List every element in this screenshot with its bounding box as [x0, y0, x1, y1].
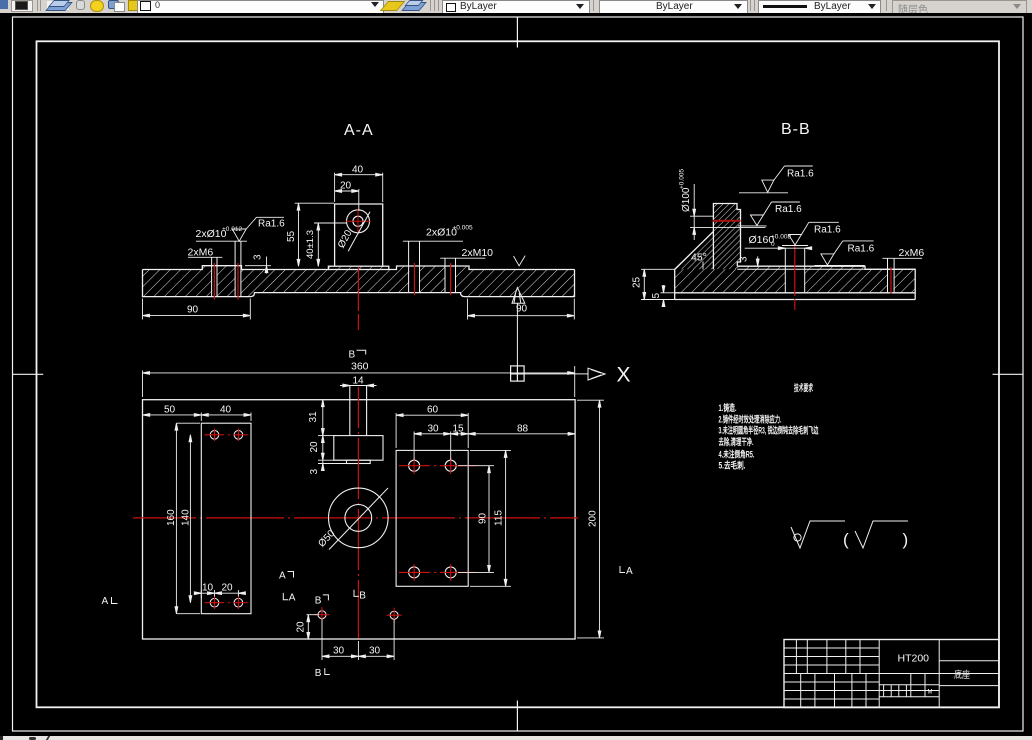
keyway slot lines — [350, 386, 367, 436]
sun icon yellow — [90, 0, 104, 12]
dim 20 bottom holes — [296, 615, 320, 640]
svg-text:3: 3 — [253, 254, 264, 260]
svg-text:Ra1.6: Ra1.6 — [258, 219, 285, 230]
svg-text:+0.005: +0.005 — [679, 169, 686, 189]
boss box plan — [334, 436, 383, 464]
B-B hole voids — [786, 264, 894, 294]
A-A dim 40 — [335, 165, 383, 203]
dim 20 bottom of slot — [208, 583, 246, 597]
A-A boss — [335, 204, 383, 266]
B-B hole red centerlines — [795, 246, 891, 310]
B-B dim Ø100 +0.005 — [679, 169, 766, 240]
note line 6 — [719, 460, 746, 471]
layer dropdown arrow — [371, 2, 379, 7]
svg-text:Ra1.6: Ra1.6 — [848, 244, 875, 255]
svg-text:Ra1.6: Ra1.6 — [787, 169, 814, 180]
bottom pin holes red crosses — [315, 607, 402, 623]
left slot holes bottom — [210, 598, 243, 607]
svg-text:160: 160 — [166, 509, 177, 526]
A-A plate hatched body — [143, 266, 575, 298]
plot style dropdown disabled — [892, 0, 1027, 14]
svg-text:Ra1.6: Ra1.6 — [775, 204, 802, 215]
svg-text:5.去毛刺.: 5.去毛刺. — [719, 460, 746, 471]
A-A hole wall lines right — [409, 241, 456, 292]
note line 2 — [719, 414, 782, 425]
title block right cells — [939, 661, 999, 686]
plan horizontal red centerline — [133, 517, 578, 519]
svg-text:20: 20 — [296, 621, 307, 633]
section mark A upper — [279, 571, 294, 582]
B-B dim 25 — [632, 269, 676, 299]
A-A roughness check mark right — [514, 256, 526, 266]
note line 1 — [719, 402, 737, 413]
make object layer icon yellow — [380, 1, 405, 11]
B-B title — [781, 121, 811, 138]
svg-text:X: X — [617, 364, 631, 387]
B-B body outline — [675, 204, 916, 300]
svg-text:115: 115 — [494, 510, 505, 526]
A-A plate outline — [143, 266, 575, 297]
svg-text:2xM6: 2xM6 — [899, 247, 925, 259]
note line 5 — [719, 449, 755, 460]
B-B dim 5 — [651, 285, 676, 307]
dim 60 — [396, 405, 468, 448]
section mark A lower — [283, 593, 296, 604]
dim 30 30 bottom — [322, 619, 394, 660]
svg-text:去除,清理干净.: 去除,清理干净. — [719, 436, 754, 447]
svg-text:2xM6: 2xM6 — [188, 247, 214, 259]
section label B top — [349, 350, 366, 361]
svg-text:30: 30 — [369, 646, 381, 657]
B-B 45 degree label — [691, 252, 707, 270]
command text clipped marks — [0, 736, 3, 740]
svg-text:): ) — [903, 530, 909, 549]
svg-text:A: A — [626, 566, 633, 577]
part name text — [954, 669, 970, 681]
UCS icon X letter — [617, 364, 631, 387]
svg-text:20: 20 — [309, 441, 320, 453]
B-B roughness Ra1.6 no3 — [782, 222, 841, 245]
svg-text:+0.005: +0.005 — [453, 225, 473, 232]
svg-text:31: 31 — [308, 411, 319, 423]
B-B label 2xM6 — [882, 247, 924, 259]
B-B dim 3 — [739, 256, 766, 266]
color dropdown — [442, 0, 590, 14]
svg-text:20: 20 — [222, 583, 234, 594]
UCS icon origin box — [511, 366, 524, 381]
notes title — [794, 382, 814, 393]
surface finish note symbol 2 parentheses — [843, 530, 908, 549]
A-A hole centerlines right red — [414, 263, 450, 295]
svg-text:B: B — [315, 668, 322, 679]
section mark B middle — [354, 590, 366, 602]
svg-text:A: A — [279, 571, 286, 582]
dim 160 — [166, 423, 200, 614]
small M mark — [928, 690, 933, 696]
svg-text:B-B: B-B — [781, 121, 811, 138]
A-A dim 3 step — [245, 254, 271, 274]
dim 115 — [470, 450, 511, 586]
svg-text:0: 0 — [771, 241, 775, 248]
svg-text:90: 90 — [187, 305, 199, 316]
command line strip — [0, 736, 1032, 740]
separator — [593, 0, 594, 11]
svg-text:HT200: HT200 — [898, 653, 930, 665]
svg-text:3: 3 — [309, 469, 320, 475]
icon black rectangle tool — [11, 0, 33, 12]
svg-text:45°: 45° — [691, 252, 707, 264]
layers stack icon — [47, 1, 69, 10]
svg-text:60: 60 — [427, 405, 439, 416]
padlock yellow icon — [128, 0, 139, 11]
svg-text:(: ( — [843, 530, 849, 549]
svg-text:B: B — [359, 591, 366, 602]
dim 14 slot — [340, 375, 377, 387]
dim 90 vertical right slot — [458, 466, 494, 573]
svg-text:88: 88 — [517, 423, 529, 434]
svg-text:A: A — [289, 593, 296, 604]
surface finish note symbol 1 — [791, 521, 845, 548]
dim 360 — [143, 361, 575, 398]
A-A hole centerlines left red — [214, 263, 238, 300]
svg-text:55: 55 — [286, 230, 297, 242]
layer dropdown box — [137, 0, 384, 14]
A-A label 2xM10 — [440, 247, 493, 259]
A-A boss hole circle — [347, 210, 370, 233]
lineweight dropdown — [758, 0, 881, 14]
dims 31 20 3 chain — [308, 400, 347, 475]
svg-text:4.未注倒角R5.: 4.未注倒角R5. — [719, 449, 755, 460]
right slot holes — [409, 460, 457, 578]
svg-text:25: 25 — [632, 276, 643, 288]
A-A dim 55 — [286, 203, 334, 266]
layer color swatch — [140, 1, 151, 11]
title block grid left columns top — [784, 640, 999, 708]
section mark B bottom — [315, 668, 330, 679]
title block middle cells — [879, 640, 939, 708]
plan outline — [143, 400, 576, 639]
svg-text:底座: 底座 — [954, 669, 970, 681]
B-B roughness Ra1.6 no1 — [739, 166, 814, 193]
plan vertical red centerline — [357, 387, 359, 639]
A-A dim 90 left — [143, 299, 251, 320]
svg-text:技术要求: 技术要求 — [794, 382, 814, 393]
svg-text:90: 90 — [478, 512, 489, 524]
note line 3 — [719, 425, 820, 436]
separator — [750, 0, 751, 11]
layer previous icon blue — [401, 2, 427, 11]
svg-text:2.铸件经时效处理消除应力.: 2.铸件经时效处理消除应力. — [719, 414, 782, 425]
HT200 material text — [898, 653, 930, 665]
left slot hole red centerlines — [205, 429, 248, 610]
svg-text:1.铸造.: 1.铸造. — [719, 402, 737, 413]
A-A center red line — [357, 267, 359, 330]
A-A title — [344, 122, 374, 139]
right slot hole red crosses — [399, 458, 477, 581]
A-A dim 90 right — [468, 299, 575, 320]
B-B thread red line — [713, 220, 741, 222]
Ø50 leader — [316, 488, 388, 550]
section mark B upper — [315, 595, 329, 606]
bottom pin holes — [318, 611, 398, 620]
A-A dim 40±1.3 — [305, 223, 347, 266]
svg-text:A-A: A-A — [344, 122, 374, 139]
icon partial blue corner — [0, 0, 8, 9]
svg-text:200: 200 — [588, 510, 599, 527]
toolbar — [0, 0, 1032, 14]
left slot holes top — [210, 431, 243, 440]
svg-text:3.未注明圆角半径R3, 锐边倒钝去除毛刺飞边: 3.未注明圆角半径R3, 锐边倒钝去除毛刺飞边 — [719, 425, 820, 436]
svg-text:14: 14 — [353, 375, 365, 386]
svg-text:A: A — [102, 596, 109, 607]
svg-text:M: M — [928, 690, 933, 696]
A-A hole voids — [212, 264, 455, 297]
svg-text:30: 30 — [333, 646, 345, 657]
surface finish note symbol 2 — [855, 521, 908, 548]
title block outer — [784, 640, 999, 708]
dim 200 — [577, 400, 604, 638]
B-B hole edge lines — [785, 248, 894, 293]
svg-text:5: 5 — [651, 293, 662, 299]
right slot rectangle — [396, 450, 468, 586]
A-A dim 20 — [335, 181, 359, 212]
A-A roughness symbol Ra1.6 left — [232, 217, 285, 241]
A-A boss pad — [328, 266, 388, 269]
svg-text:15: 15 — [453, 423, 465, 434]
svg-text:Ø100: Ø100 — [681, 187, 692, 212]
B-B roughness Ra1.6 no4 — [815, 241, 875, 266]
bulb icon gray — [76, 0, 85, 10]
A-A label 2xM6 — [188, 247, 223, 259]
section mark A far left — [102, 596, 118, 607]
left slot rectangle — [201, 423, 251, 614]
svg-text:B: B — [315, 595, 322, 606]
dim 10 — [194, 583, 243, 599]
A-A hole wall lines left — [212, 241, 241, 296]
A-A label 2xΦ10 +0.005 right — [403, 225, 473, 242]
separator — [886, 0, 887, 11]
A-A Ø20 leader — [336, 212, 370, 252]
A-A label 2xΦ10 +0.012 left — [196, 226, 248, 241]
svg-text:3: 3 — [739, 256, 750, 262]
B-B roughness Ra1.6 no2 — [738, 202, 802, 226]
svg-text:40: 40 — [220, 404, 232, 415]
center circle big — [329, 488, 389, 548]
dim 30 15 88 row — [414, 423, 575, 460]
toolbar separator — [37, 0, 38, 11]
dim 140 — [181, 435, 192, 603]
svg-text:2xM10: 2xM10 — [462, 247, 494, 259]
layer name 0 — [155, 0, 160, 10]
dim 40 plan — [201, 404, 251, 421]
dim 50 — [143, 404, 202, 421]
svg-text:30: 30 — [428, 423, 440, 434]
svg-text:40±1.3: 40±1.3 — [305, 230, 316, 259]
svg-text:40: 40 — [352, 165, 364, 176]
lock icon blue/white — [108, 0, 119, 9]
section mark A right — [620, 566, 633, 577]
linetype dropdown — [599, 0, 748, 14]
UCS icon X axis — [524, 368, 605, 380]
svg-text:140: 140 — [181, 509, 192, 526]
UCS icon Y axis — [512, 288, 525, 366]
B-B dim Ø160 +0.008 — [745, 234, 812, 250]
svg-text:Ra1.6: Ra1.6 — [814, 224, 841, 235]
svg-text:B: B — [349, 350, 356, 361]
A-A boss hole crosshair — [346, 209, 372, 234]
separator — [430, 0, 431, 11]
svg-text:360: 360 — [351, 361, 369, 373]
svg-text:20: 20 — [340, 181, 352, 192]
B-B hatched body — [675, 204, 916, 293]
svg-text:50: 50 — [164, 404, 176, 415]
note line 4 — [719, 436, 754, 447]
